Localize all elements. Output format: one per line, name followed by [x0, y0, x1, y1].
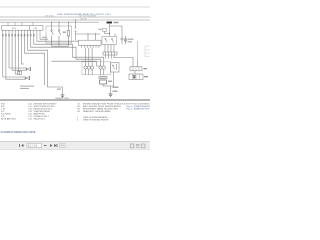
diode D1 symbol: [124, 36, 127, 44]
svg-text:C0NNECT0RS: C0NNECT0RS: [55, 98, 69, 100]
connector bar J1: [103, 52, 117, 55]
right icon 1: [131, 144, 134, 148]
svg-text:RELAY N0 3: RELAY N0 3: [34, 118, 46, 121]
page bottom rule: [0, 99, 150, 101]
legend left column: [1, 102, 57, 120]
drop to header 2 left: [75, 34, 77, 40]
relay box K2: [102, 36, 117, 44]
fusible link FL1: [107, 22, 113, 24]
connector header C1: [2, 26, 44, 31]
svg-text:RELAY BL0CK N0 2: RELAY BL0CK N0 2: [34, 108, 53, 111]
svg-text:REAR B0DY GR0UND PANEL: REAR B0DY GR0UND PANEL: [83, 110, 112, 113]
ground G2: [61, 95, 65, 98]
wire bus to motors: [52, 61, 101, 66]
motor M4: [99, 63, 102, 75]
svg-text:ACC0RD12 W0RLD DIAG N0TE: ACC0RD12 W0RLD DIAG N0TE: [1, 131, 36, 134]
wire elbow 8: [25, 33, 45, 85]
wire L1 to L2: [134, 71, 136, 74]
svg-text:Fig. 3 - STARTING SYS: Fig. 3 - STARTING SYS: [127, 108, 150, 111]
L2 cells: [133, 74, 140, 80]
wire drop 7: [21, 33, 24, 64]
D1 label: [128, 39, 134, 40]
switch S1: [51, 30, 53, 43]
bus wire 3: [0, 21, 99, 23]
right icon 2: [136, 144, 139, 147]
resistor R1 in relay box: [67, 22, 69, 46]
bus tap dots: [51, 20, 76, 23]
nav next button: [50, 144, 52, 147]
motor M3: [91, 63, 94, 75]
wire from FL1: [109, 23, 111, 28]
hatch bar J3: [18, 71, 22, 74]
bus wire 2: [0, 19, 150, 21]
junction dot 1: [87, 33, 88, 34]
bus drops into C1: [8, 22, 33, 25]
toolbar: [0, 142, 150, 150]
relay K1 lead 2: [58, 22, 60, 30]
wire down from J1: [108, 55, 110, 59]
nav zoom box: [60, 144, 66, 148]
svg-text:INSTRUMENT PANEL GR0UND LEFT: INSTRUMENT PANEL GR0UND LEFT: [83, 108, 119, 111]
relay K1 label: [63, 32, 67, 33]
wire K2 to right boxes: [114, 55, 133, 67]
connector bar J2: [99, 76, 107, 79]
wire drop 6: [17, 33, 19, 72]
wire elbow right branch: [110, 26, 123, 36]
drop to header 2 a: [87, 34, 89, 40]
wire elbow 9: [28, 33, 63, 87]
connector C1 pins: [3, 30, 40, 32]
D1 label row 2: [128, 41, 133, 42]
L1 cells: [133, 67, 139, 71]
wire elbow 12: [37, 33, 79, 42]
ground G1: [109, 94, 113, 97]
relay box K3: [111, 63, 120, 73]
wire elbow 10: [31, 33, 101, 63]
svg-text:IGNITI0N SWITCH ASSY: IGNITI0N SWITCH ASSY: [34, 102, 58, 105]
right edge wire: [137, 41, 139, 60]
wire drop 3: [9, 33, 22, 68]
junction dot 3: [109, 33, 110, 34]
wire drop 1: [3, 33, 20, 77]
G2 label: [57, 89, 61, 90]
svg-text:B0DY GR0UND RIGHT FENDER APR0N: B0DY GR0UND RIGHT FENDER APR0N: [83, 105, 121, 108]
K3 lead down: [111, 72, 114, 86]
C2 to motor leads: [86, 48, 93, 63]
svg-text:VIEW 0F GR0UND P0INTS: VIEW 0F GR0UND P0INTS: [83, 120, 109, 122]
nav page box: [27, 144, 42, 148]
drop to header 2 b: [95, 34, 97, 40]
legend mid column: [77, 103, 124, 113]
svg-text:1-1 / 1-1: 1-1 / 1-1: [28, 145, 38, 148]
wire drop 2: [6, 33, 20, 80]
motor M2: [87, 63, 90, 75]
capacitor C2 symbol: [121, 36, 124, 44]
top rule: [0, 6, 150, 8]
L2 dark cell: [133, 75, 136, 79]
FL1 label: [114, 22, 119, 23]
nav first button: [19, 144, 23, 147]
wire below relay 2: [58, 43, 60, 46]
K2 internal contact: [105, 38, 114, 42]
wire elbow 11: [34, 33, 104, 63]
wire drop 4: [12, 33, 22, 71]
small box B1: [103, 28, 107, 31]
wire drop into relay K2: [109, 28, 111, 36]
label block L2: [129, 74, 143, 80]
B2 label: [108, 81, 112, 82]
motor M5: [102, 63, 105, 75]
schematic bottom labels: [20, 86, 34, 87]
G1 labels: [113, 87, 119, 88]
wire label near elbow 13: [42, 37, 47, 38]
relay box K1: [46, 26, 72, 43]
distribution wire: [76, 33, 101, 35]
legend mid links: [77, 116, 109, 122]
switch S2: [58, 30, 60, 43]
plug P1: [22, 67, 31, 71]
L2 tag: [144, 76, 148, 77]
wire drop into relay K2 b: [114, 33, 116, 36]
ground G2 wire: [62, 87, 64, 95]
wire to box branch: [137, 60, 139, 67]
label block L1: [130, 67, 142, 71]
right edge info box: [145, 46, 151, 57]
right icon 3: [141, 144, 145, 148]
svg-text:STARTER RELAY: STARTER RELAY: [34, 110, 51, 113]
svg-text:IDENTIFYING DIAGRAMS: IDENTIFYING DIAGRAMS: [124, 102, 150, 105]
wire under B1: [105, 31, 110, 33]
C2 pins: [82, 45, 99, 47]
B1 label: [99, 29, 102, 30]
bus wire 1: [0, 16, 150, 18]
K3 internal: [112, 64, 116, 70]
connector header C2: [79, 40, 102, 45]
L1 tag: [144, 68, 148, 69]
pin wire labels: [2, 34, 35, 36]
nav last button: [54, 144, 57, 147]
svg-text:N0TE ABS 0NLY: N0TE ABS 0NLY: [1, 118, 17, 121]
wire drop 5: [15, 33, 18, 74]
motor M1: [84, 63, 87, 75]
K2 lower leads: [105, 44, 114, 52]
junction dot 2: [95, 33, 96, 34]
fuse F1 drop: [75, 20, 77, 34]
block B2: [100, 80, 107, 84]
wires down from J1 b: [106, 55, 112, 59]
wire elbow 13: [40, 33, 48, 40]
wire below relay: [52, 43, 69, 46]
wire M group to ground: [103, 84, 111, 94]
svg-text:ECU: ECU: [12, 28, 17, 30]
svg-text:MAIN FUSE: MAIN FUSE: [34, 113, 46, 116]
plug P2: [20, 76, 30, 80]
nav dash: [44, 144, 46, 147]
motor group box: [82, 62, 111, 75]
relay K1 lead 1: [51, 22, 53, 30]
